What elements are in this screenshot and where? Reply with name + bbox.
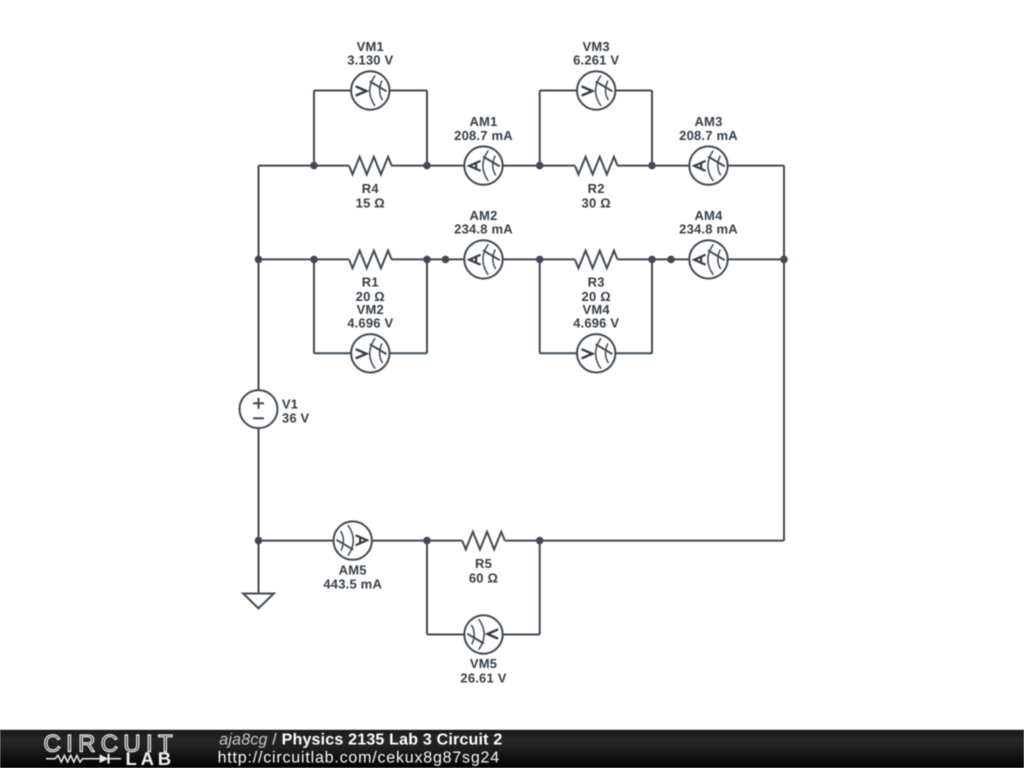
svg-text:VM5: VM5: [470, 656, 497, 671]
svg-text:20 Ω: 20 Ω: [356, 289, 385, 304]
svg-text:V1: V1: [282, 396, 298, 411]
resistor R1: [349, 251, 392, 269]
ground: [243, 594, 274, 609]
wire VM2 left leg: [313, 259, 315, 353]
node row2-VM4 left junction: [536, 256, 544, 264]
voltmeter VM4: [577, 334, 615, 372]
wire row2: R3 to AM4: [618, 258, 690, 260]
wire VM2 right leg: [426, 259, 428, 353]
node left rail row2 junction: [255, 256, 263, 264]
svg-text:208.7 mA: 208.7 mA: [454, 128, 513, 143]
wire row1: R4 to AM1: [392, 165, 465, 167]
wire row1: R2 to AM3: [618, 165, 690, 167]
logo diode symbol: [100, 754, 109, 763]
wire VM4 bottom right: [615, 352, 652, 354]
wire row1: left rail to R4: [259, 165, 350, 167]
resistor R2: [575, 157, 618, 175]
ammeter AM1: [464, 146, 502, 184]
wire row2: AM4 to right rail: [728, 258, 784, 260]
svg-text:http://circuitlab.com/cekux8g8: http://circuitlab.com/cekux8g87sg24: [218, 750, 500, 767]
wire row2: AM2 to R3: [503, 258, 575, 260]
wire VM5 left leg: [426, 541, 428, 635]
node row1-VM3 right junction: [648, 162, 656, 170]
ammeter AM5: [334, 521, 372, 559]
wire VM1 top left: [314, 90, 351, 92]
wire VM1 right leg: [426, 91, 428, 166]
wire VM2 bottom left: [314, 352, 351, 354]
svg-text:4.696 V: 4.696 V: [573, 316, 619, 331]
wire VM1 top right: [390, 90, 428, 92]
node row2 wire junction right: [667, 256, 675, 264]
footer bar: [0, 730, 1024, 768]
svg-text:234.8 mA: 234.8 mA: [679, 222, 738, 237]
svg-text:30 Ω: 30 Ω: [582, 195, 611, 210]
node row1-VM3 left junction: [536, 162, 544, 170]
logo resistor symbol: [46, 755, 100, 762]
wire VM2 bottom right: [390, 352, 428, 354]
ammeter AM2: [464, 240, 502, 278]
wire left rail lower to ground: [258, 428, 260, 593]
resistor R5: [462, 532, 505, 550]
wire VM5 bottom right: [503, 634, 540, 636]
resistor R3: [575, 251, 618, 269]
svg-text:R2: R2: [588, 181, 605, 196]
svg-text:aja8cg / Physics 2135 Lab 3 Ci: aja8cg / Physics 2135 Lab 3 Circuit 2: [219, 731, 502, 748]
wire VM3 right leg: [651, 91, 653, 166]
node bottom-VM5 left junction: [423, 537, 431, 545]
wire left rail upper: [258, 166, 260, 391]
voltmeter VM2: [351, 334, 389, 372]
wire VM5 right leg: [539, 541, 541, 635]
svg-text:3.130 V: 3.130 V: [347, 53, 393, 68]
wire VM3 top right: [615, 90, 652, 92]
svg-text:20 Ω: 20 Ω: [582, 289, 611, 304]
svg-text:443.5 mA: 443.5 mA: [323, 576, 382, 591]
ammeter AM4: [689, 240, 727, 278]
node row2-VM2 right junction: [423, 256, 431, 264]
wire right rail: [783, 166, 785, 541]
voltmeter VM1: [351, 71, 389, 109]
wire row2: left rail to R1: [259, 258, 350, 260]
wire VM1 left leg: [313, 91, 315, 166]
voltmeter VM5: [464, 615, 502, 653]
wire VM4 right leg: [651, 259, 653, 353]
svg-text:26.61 V: 26.61 V: [460, 670, 506, 685]
svg-text:234.8 mA: 234.8 mA: [454, 222, 513, 237]
wire bottom: AM5 to R5: [372, 540, 462, 542]
svg-text:R3: R3: [588, 275, 605, 290]
resistor R4: [349, 157, 392, 175]
wire VM3 top left: [540, 90, 577, 92]
wire row1: AM1 to R2: [503, 165, 575, 167]
node row2 wire junction left: [442, 256, 450, 264]
svg-text:36 V: 36 V: [282, 410, 310, 425]
wire VM4 left leg: [539, 259, 541, 353]
svg-text:4.696 V: 4.696 V: [347, 316, 393, 331]
node row1-VM1 right junction: [423, 162, 431, 170]
wire VM3 left leg: [539, 91, 541, 166]
node left rail bottom junction: [255, 537, 263, 545]
svg-text:15 Ω: 15 Ω: [356, 195, 385, 210]
svg-text:R4: R4: [362, 181, 380, 196]
svg-text:LAB: LAB: [126, 748, 175, 768]
node row1-VM1 left junction: [310, 162, 318, 170]
svg-text:6.261 V: 6.261 V: [573, 53, 619, 68]
wire row1: AM3 to right rail: [728, 165, 784, 167]
svg-text:R5: R5: [475, 556, 492, 571]
node row2-VM2 left junction: [310, 256, 318, 264]
node right rail row2 junction: [780, 256, 788, 264]
voltmeter VM3: [577, 71, 615, 109]
ammeter AM3: [689, 146, 727, 184]
wire bottom: rail to AM5: [259, 540, 334, 542]
wire VM4 bottom left: [540, 352, 577, 354]
wire VM5 bottom left: [427, 634, 464, 636]
svg-text:60 Ω: 60 Ω: [469, 570, 498, 585]
svg-text:R1: R1: [362, 275, 379, 290]
wire bottom: R5 to right rail: [505, 540, 784, 542]
voltage source V1: [240, 390, 278, 428]
svg-text:AM5: AM5: [339, 562, 367, 577]
node row2-VM4 right junction: [648, 256, 656, 264]
node bottom-VM5 right junction: [536, 537, 544, 545]
svg-text:208.7 mA: 208.7 mA: [679, 128, 738, 143]
wire row2: R1 to AM2: [392, 258, 465, 260]
